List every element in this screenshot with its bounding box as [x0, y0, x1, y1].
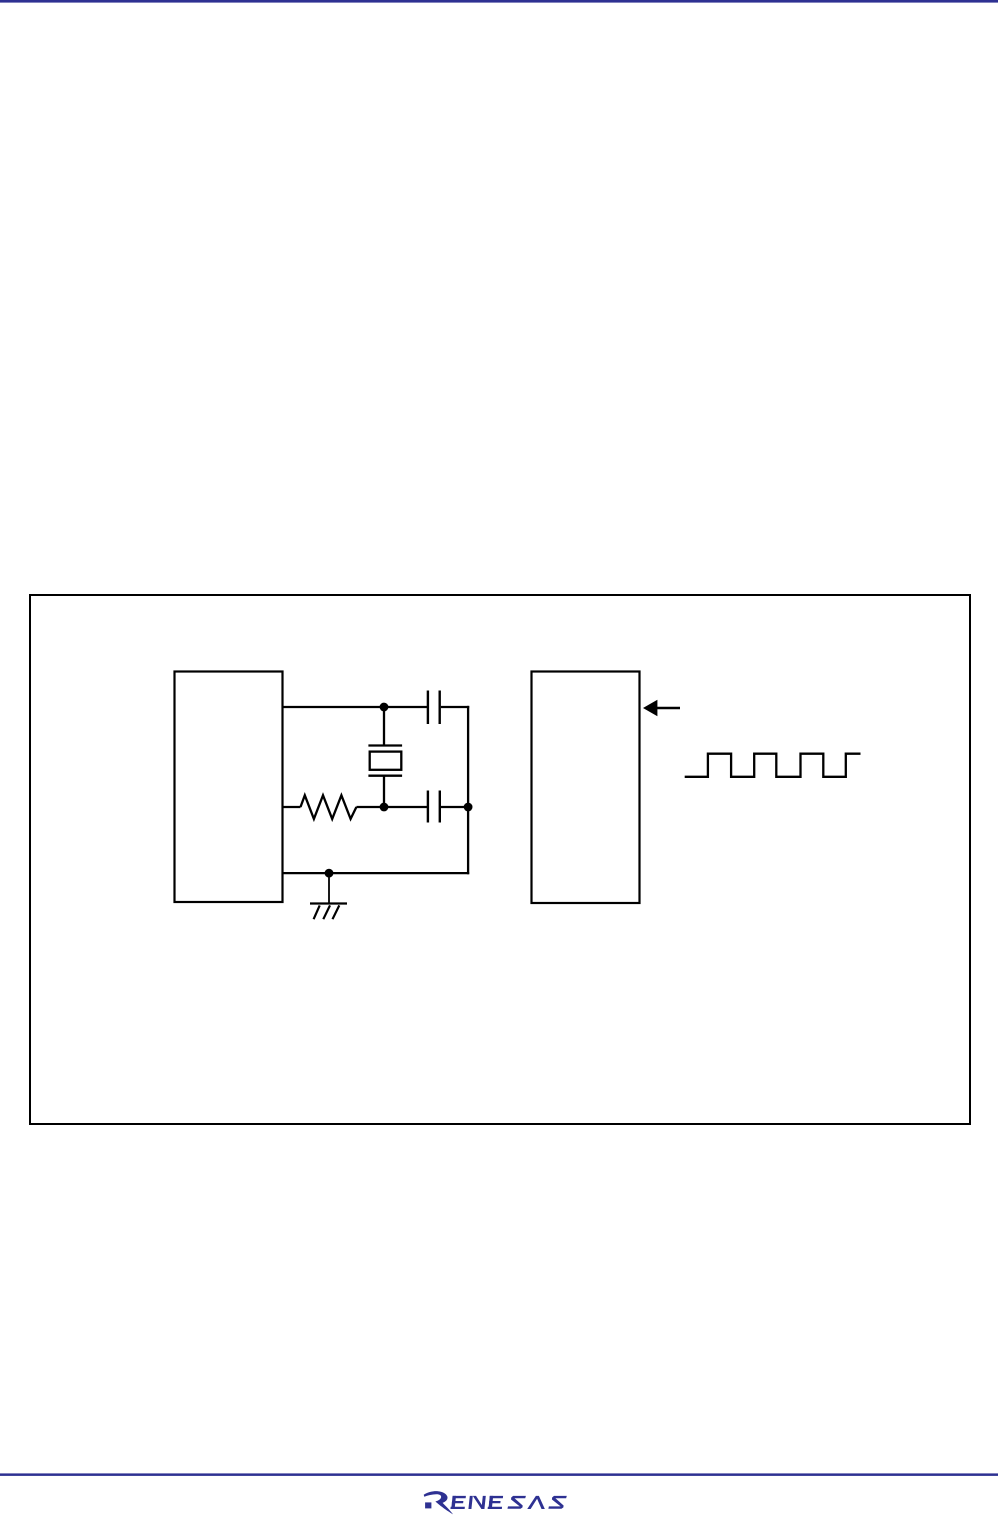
wire right bus (vertical): [467, 706, 469, 874]
wire VSS bottom: [283, 872, 470, 874]
capacitor C2: [428, 791, 440, 823]
ground: [310, 904, 347, 920]
wire C2 to right bus: [441, 806, 468, 808]
wire crystal to N2: [383, 776, 385, 807]
Renesas logo: [424, 1491, 567, 1514]
node N4 (ground junction): [325, 869, 334, 878]
resistor R1: [301, 795, 357, 819]
wire C1 to right bus: [441, 706, 469, 708]
wire N1 to crystal: [383, 707, 385, 746]
wire XOUT (top pin to C1): [283, 706, 428, 708]
wire XIN pin to resistor: [283, 806, 301, 808]
node N1 (XOUT junction): [380, 703, 389, 712]
capacitor C1: [428, 691, 440, 725]
clock waveform: [685, 754, 861, 777]
crystal X1: [368, 746, 402, 776]
wire ground stub: [328, 873, 330, 903]
node N3 (bus junction): [464, 803, 473, 812]
IC U1 (microcontroller block): [175, 672, 283, 903]
wire resistor to C2: [356, 806, 427, 808]
arrow clock input: [643, 700, 680, 717]
IC U2 (external clock source block): [532, 672, 640, 904]
node N2 (XIN junction): [380, 803, 389, 812]
